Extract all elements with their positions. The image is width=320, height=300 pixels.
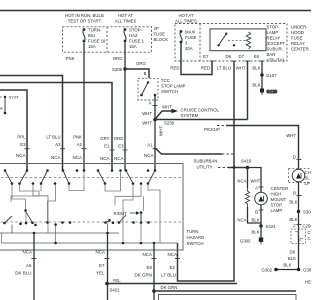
relay terminal labels bbox=[203, 54, 259, 59]
svg-text:PNK: PNK bbox=[66, 56, 75, 61]
svg-text:YEL: YEL bbox=[96, 271, 105, 276]
svg-text:F: F bbox=[293, 224, 296, 229]
junction LT BLU/option bbox=[233, 166, 236, 169]
svg-text:I/P: I/P bbox=[154, 26, 159, 31]
NCA labels bbox=[16, 153, 154, 161]
bus junction dots bbox=[33, 232, 156, 245]
svg-text:C250: C250 bbox=[303, 224, 312, 229]
svg-text:S419: S419 bbox=[241, 159, 252, 164]
svg-text:UTILITY: UTILITY bbox=[197, 165, 213, 170]
svg-text:FUSE 1: FUSE 1 bbox=[129, 39, 145, 44]
wire WHT pickup option to right lamp bbox=[217, 125, 226, 127]
TCC stop lamp switch dashed box bbox=[138, 78, 158, 100]
wire BLK from relay E6 bbox=[261, 61, 263, 89]
svg-text:E7: E7 bbox=[99, 263, 105, 268]
wire WHT from TCC A bbox=[154, 95, 156, 171]
svg-text:SWITCH: SWITCH bbox=[187, 241, 204, 246]
turn hazard switch box bbox=[0, 164, 183, 251]
svg-text:LAMP: LAMP bbox=[267, 30, 279, 35]
svg-text:FUSE: FUSE bbox=[291, 36, 303, 41]
switch internal routing bbox=[2, 172, 161, 243]
svg-text:E2: E2 bbox=[169, 265, 175, 270]
terminal A tick bbox=[259, 186, 264, 188]
svg-text:G107: G107 bbox=[266, 73, 277, 78]
svg-text:RELAY: RELAY bbox=[267, 36, 281, 41]
svg-text:BAN: BAN bbox=[267, 52, 276, 57]
svg-text:LAMP: LAMP bbox=[271, 208, 283, 213]
terminal A tick bbox=[153, 105, 158, 107]
svg-text:WHT: WHT bbox=[159, 126, 164, 136]
ground G305 bbox=[259, 238, 263, 242]
turn hazard switch label bbox=[187, 229, 205, 246]
svg-text:D8: D8 bbox=[290, 250, 296, 255]
svg-text:A3: A3 bbox=[55, 142, 61, 147]
wire PNK fuse18 down to switch bbox=[83, 43, 85, 171]
hot at all times label (I/P) bbox=[115, 13, 137, 23]
switch linkage dashed row 2 bbox=[0, 221, 183, 223]
svg-text:DK BLU: DK BLU bbox=[15, 271, 31, 276]
splice S304 bbox=[297, 210, 300, 213]
svg-text:UTILITY): UTILITY) bbox=[267, 58, 285, 63]
svg-text:ORG: ORG bbox=[136, 61, 146, 66]
svg-text:A1: A1 bbox=[147, 143, 153, 148]
label fuse F1 value bbox=[129, 28, 145, 50]
arrowhead bbox=[172, 109, 179, 113]
lamp wire right branch bbox=[248, 168, 262, 193]
splice G107 bbox=[260, 73, 263, 76]
feeder wire LT BLU from left bbox=[0, 76, 63, 171]
svg-text:S239: S239 bbox=[164, 121, 175, 126]
relay terminal ticks E7 D6 D7 E6 bbox=[210, 60, 265, 62]
svg-text:SYSTEM: SYSTEM bbox=[181, 113, 199, 118]
svg-text:D6: D6 bbox=[226, 54, 232, 59]
wire ORG branch to TCC switch bbox=[125, 69, 149, 78]
resistor element left branch bbox=[246, 188, 250, 207]
lower component box (cut) bbox=[159, 295, 297, 300]
svg-text:YEL: YEL bbox=[113, 278, 122, 283]
svg-text:S209: S209 bbox=[112, 67, 123, 72]
wire LT BLU from relay D6 down bbox=[233, 61, 235, 168]
hot at all times label (underhood) bbox=[175, 13, 197, 24]
svg-text:BLK: BLK bbox=[252, 66, 260, 71]
svg-text:STOP LAMP: STOP LAMP bbox=[161, 84, 186, 89]
svg-text:SUBUR-: SUBUR- bbox=[267, 47, 284, 52]
svg-text:HOT AT: HOT AT bbox=[118, 13, 133, 18]
underhood center label bbox=[291, 25, 309, 52]
svg-text:NCA: NCA bbox=[100, 156, 110, 161]
wire RED maxi fuse to relay E7 bbox=[181, 43, 212, 75]
terminal B tick bbox=[259, 209, 264, 211]
TCC switch contacts bbox=[147, 81, 149, 83]
svg-text:D: D bbox=[293, 155, 296, 160]
splice S421 and YEL run bbox=[105, 282, 109, 286]
svg-text:G302: G302 bbox=[261, 268, 272, 273]
I/P fuse block label bbox=[154, 26, 169, 42]
svg-text:UNDER-: UNDER- bbox=[291, 25, 308, 30]
svg-text:FUSE 18: FUSE 18 bbox=[88, 39, 106, 44]
svg-text:LP: LP bbox=[305, 181, 310, 186]
inline connector dashed box bbox=[291, 229, 306, 244]
underhood fuse relay center dashed box bbox=[175, 24, 287, 62]
svg-text:15A: 15A bbox=[88, 44, 96, 49]
svg-text:(EXCEPT: (EXCEPT bbox=[267, 41, 286, 46]
svg-text:SUBURBAN: SUBURBAN bbox=[194, 159, 218, 164]
bottom terminal labels bbox=[15, 250, 177, 278]
relay linkage dashed bbox=[228, 40, 247, 42]
svg-text:HOOD: HOOD bbox=[291, 30, 304, 35]
svg-text:PPL: PPL bbox=[17, 135, 26, 140]
connector ticks bbox=[25, 149, 158, 150]
label maxi fuse value bbox=[185, 30, 197, 52]
switch row2 contacts bbox=[3, 209, 150, 226]
svg-text:WHT: WHT bbox=[286, 133, 296, 138]
wire BLK to ground bbox=[260, 226, 262, 238]
svg-text:TEST OR START: TEST OR START bbox=[68, 18, 102, 23]
svg-text:BLK: BLK bbox=[289, 200, 297, 205]
svg-text:E1: E1 bbox=[104, 144, 110, 149]
splice S239 bbox=[153, 118, 157, 122]
svg-text:B: B bbox=[255, 210, 258, 215]
fuse TURN-B/U FUSE 18 bbox=[83, 28, 86, 42]
svg-text:DK GRN: DK GRN bbox=[134, 273, 152, 278]
svg-text:BLK: BLK bbox=[252, 83, 260, 88]
lamp labels bbox=[237, 179, 246, 223]
svg-text:WHT: WHT bbox=[236, 66, 246, 71]
svg-text:PNK: PNK bbox=[73, 135, 82, 140]
svg-text:NCA: NCA bbox=[114, 156, 124, 161]
svg-text:RELAY: RELAY bbox=[291, 41, 305, 46]
svg-text:BLK: BLK bbox=[251, 230, 259, 235]
svg-text:A2: A2 bbox=[77, 142, 83, 147]
svg-text:CENTER: CENTER bbox=[271, 186, 289, 191]
svg-text:E3: E3 bbox=[118, 144, 124, 149]
stop lamp relay U1 box bbox=[210, 29, 266, 51]
splice S424 bbox=[259, 224, 262, 227]
switch row1 upper contacts bbox=[4, 169, 157, 172]
svg-text:HEA: HEA bbox=[305, 280, 311, 285]
svg-text:NCA: NCA bbox=[144, 153, 154, 158]
wire WHT suburban branch bbox=[155, 148, 222, 154]
svg-text:SWITCH: SWITCH bbox=[161, 89, 178, 94]
svg-text:BLK: BLK bbox=[252, 218, 260, 223]
svg-text:NCA: NCA bbox=[167, 252, 177, 257]
off-page SYST stub bbox=[0, 95, 20, 115]
svg-text:STOP-: STOP- bbox=[267, 25, 281, 30]
svg-text:SL: SL bbox=[305, 176, 311, 181]
top separator line bbox=[0, 10, 311, 12]
svg-text:WHT: WHT bbox=[251, 179, 261, 184]
svg-text:E8: E8 bbox=[146, 265, 152, 270]
suburban utility label bbox=[194, 159, 218, 170]
svg-text:G305: G305 bbox=[240, 239, 251, 244]
wire DK BLU switch output A6 bbox=[33, 233, 35, 300]
wire WHT branch to cruise control bbox=[155, 111, 172, 120]
feeder wire PPL from left bbox=[0, 90, 27, 170]
wire WHT from relay D7 down to WHT net bbox=[247, 61, 249, 120]
svg-text:E6: E6 bbox=[254, 54, 260, 59]
svg-text:G129: G129 bbox=[267, 89, 278, 94]
svg-text:CRUISE CONTROL: CRUISE CONTROL bbox=[181, 108, 220, 113]
svg-text:S424: S424 bbox=[266, 224, 277, 229]
svg-text:NCA: NCA bbox=[72, 155, 82, 160]
svg-text:RIGHT: RIGHT bbox=[114, 211, 128, 216]
svg-text:HOT IN RUN, BULB: HOT IN RUN, BULB bbox=[65, 13, 104, 18]
svg-text:BLOCK: BLOCK bbox=[154, 37, 169, 42]
svg-text:CENTER: CENTER bbox=[291, 47, 309, 52]
fuse STOP-HAZ FUSE 1 bbox=[124, 28, 127, 42]
svg-text:HIGH: HIGH bbox=[271, 192, 282, 197]
svg-text:BLK: BLK bbox=[289, 217, 297, 222]
svg-text:HAZARD: HAZARD bbox=[187, 235, 205, 240]
terminal B tick bbox=[297, 195, 302, 197]
wire DK GRN switch output E8 bbox=[153, 243, 155, 300]
svg-text:ALL TIMES: ALL TIMES bbox=[175, 19, 197, 24]
svg-text:LT BLU: LT BLU bbox=[217, 66, 231, 71]
switch bus lines bbox=[0, 224, 178, 244]
svg-text:NCA: NCA bbox=[237, 218, 246, 223]
svg-text:STOP: STOP bbox=[271, 203, 283, 208]
svg-text:NCA: NCA bbox=[237, 179, 246, 184]
svg-text:TURN: TURN bbox=[187, 229, 199, 234]
relay label bbox=[267, 25, 286, 63]
svg-text:D7: D7 bbox=[239, 54, 245, 59]
svg-text:TURN-: TURN- bbox=[88, 28, 102, 33]
svg-text:WHT: WHT bbox=[142, 111, 152, 116]
fuse MAXI FUSE 3 bbox=[180, 30, 183, 43]
TCC label bbox=[161, 78, 186, 94]
I/P fuse block dashed box bbox=[63, 27, 152, 52]
svg-text:NCA: NCA bbox=[22, 250, 32, 255]
svg-text:B: B bbox=[293, 191, 296, 196]
svg-text:MOUNT: MOUNT bbox=[271, 197, 287, 202]
svg-text:NCA: NCA bbox=[16, 153, 26, 158]
svg-text:PICKUP: PICKUP bbox=[204, 127, 220, 132]
svg-text:CHM: CHM bbox=[305, 170, 312, 175]
svg-text:A6: A6 bbox=[26, 263, 32, 268]
lamp dashed outline bbox=[289, 169, 312, 183]
wire ORG fuse1 down to switch bbox=[124, 43, 126, 171]
lamp CHMSL bbox=[292, 169, 305, 182]
svg-text:A: A bbox=[255, 186, 258, 191]
splice S419 bbox=[246, 166, 250, 170]
svg-text:A: A bbox=[0, 106, 3, 111]
svg-text:S304: S304 bbox=[303, 210, 311, 215]
svg-text:ORG: ORG bbox=[114, 136, 124, 141]
ground G129 bbox=[260, 89, 264, 93]
svg-text:MAXI: MAXI bbox=[185, 30, 196, 35]
connector row labels above switch bbox=[17, 135, 153, 149]
ground run BLK bbox=[297, 268, 301, 272]
svg-text:RED: RED bbox=[201, 66, 210, 71]
label wire RED bbox=[170, 66, 210, 71]
svg-text:LT BLU: LT BLU bbox=[46, 135, 60, 140]
splice S209 bbox=[123, 67, 126, 70]
switch row1 contact arms bbox=[5, 171, 155, 184]
svg-text:LT BLU: LT BLU bbox=[161, 273, 176, 278]
hot in run label bbox=[65, 13, 104, 23]
svg-text:BLK: BLK bbox=[288, 256, 296, 261]
label fuse F18 value bbox=[88, 28, 106, 50]
svg-text:C: C bbox=[308, 230, 311, 235]
switch linkage dashed row 1 bbox=[0, 177, 183, 179]
connector C250 tick F bbox=[297, 224, 302, 226]
svg-text:NCA: NCA bbox=[142, 252, 152, 257]
svg-text:30A: 30A bbox=[185, 46, 193, 51]
svg-text:15A: 15A bbox=[129, 44, 137, 49]
svg-text:FUSE: FUSE bbox=[185, 35, 197, 40]
terminal D tick bbox=[297, 159, 302, 161]
wire option link to S419 bbox=[218, 167, 228, 169]
svg-text:E7: E7 bbox=[203, 54, 209, 59]
wire LT BLU continues down to switch E2 bbox=[178, 168, 235, 282]
svg-text:B: B bbox=[144, 71, 147, 76]
svg-text:STOP-: STOP- bbox=[129, 28, 143, 33]
svg-text:SYST: SYST bbox=[9, 95, 20, 100]
feeder wire GRY from left bbox=[0, 83, 112, 171]
svg-text:WHT: WHT bbox=[142, 121, 152, 126]
relay contact bbox=[217, 33, 235, 47]
wire WHT trunk to relay coil bbox=[155, 119, 248, 121]
svg-text:HAZ: HAZ bbox=[129, 33, 138, 38]
svg-text:WHT: WHT bbox=[162, 105, 172, 110]
wire YEL switch output E7 bbox=[107, 233, 109, 300]
relay coil bbox=[246, 32, 250, 49]
switch row2 contact arms bbox=[5, 212, 142, 223]
svg-text:ORG: ORG bbox=[113, 56, 123, 61]
svg-text:ALL TIMES: ALL TIMES bbox=[115, 18, 137, 23]
ground G302 bbox=[274, 268, 278, 272]
svg-text:NCA: NCA bbox=[95, 250, 105, 255]
svg-text:B/U: B/U bbox=[88, 33, 95, 38]
svg-text:C: C bbox=[308, 236, 311, 241]
svg-text:TCC: TCC bbox=[161, 78, 170, 83]
splice and DK GRN run bbox=[152, 289, 156, 293]
svg-text:HOT AT: HOT AT bbox=[178, 13, 193, 18]
svg-text:A: A bbox=[149, 101, 152, 106]
svg-text:DK GRN: DK GRN bbox=[161, 285, 178, 290]
cruise control label bbox=[181, 108, 220, 119]
svg-text:NCA: NCA bbox=[51, 155, 61, 160]
svg-text:BLK: BLK bbox=[283, 263, 291, 268]
svg-text:RED: RED bbox=[170, 66, 179, 71]
center CHMSL branch from S419 bbox=[247, 168, 249, 189]
svg-text:E3: E3 bbox=[20, 142, 26, 147]
svg-text:S421: S421 bbox=[110, 288, 121, 293]
lamp CENTER HIGH MOUNT STOP LAMP bbox=[255, 192, 268, 205]
svg-text:FUSE: FUSE bbox=[154, 32, 166, 37]
switch row1 lower contacts bbox=[11, 182, 150, 185]
svg-text:G304: G304 bbox=[303, 268, 311, 273]
svg-text:GRY: GRY bbox=[100, 136, 109, 141]
bottom connector ticks bbox=[32, 258, 181, 260]
